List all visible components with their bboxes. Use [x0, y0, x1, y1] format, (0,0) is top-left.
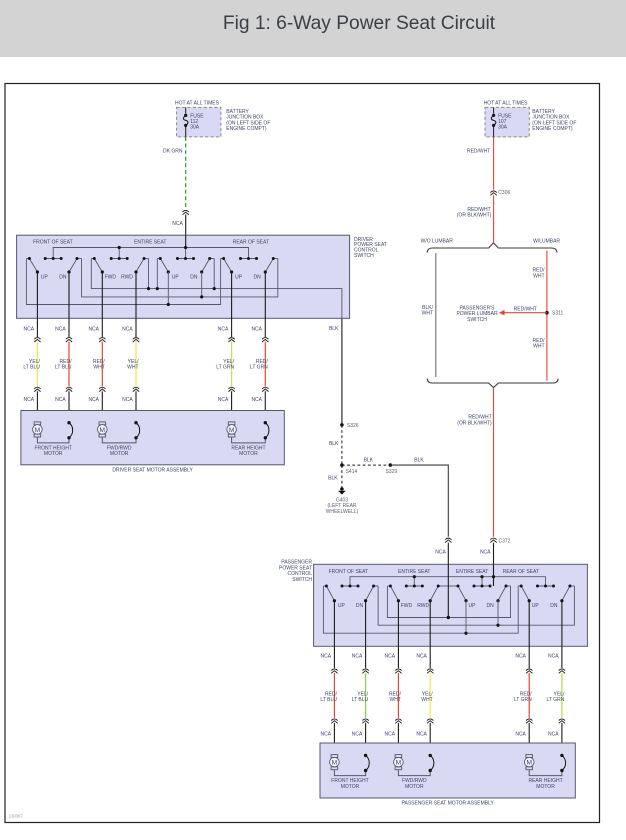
- svg-text:NCA: NCA: [172, 221, 183, 227]
- svg-text:BLK: BLK: [328, 476, 338, 482]
- switch entire seat fwd/rwd (driver): [91, 257, 148, 281]
- wire BLK from driver switch: [329, 318, 342, 425]
- svg-text:RED/WHT: RED/WHT: [467, 149, 490, 155]
- svg-text:S329: S329: [386, 469, 398, 475]
- wire BLK S414 to S329: [342, 458, 390, 466]
- passenger bus B: [378, 586, 574, 625]
- svg-text:(OR BLK/WHT): (OR BLK/WHT): [457, 213, 492, 219]
- switch front of seat up/dn (passenger): [323, 585, 378, 609]
- svg-text:SWITCH: SWITCH: [467, 317, 487, 323]
- svg-text:PASSENGER SEAT MOTOR ASSEMBLY: PASSENGER SEAT MOTOR ASSEMBLY: [402, 801, 495, 807]
- driver switch label: [354, 237, 387, 259]
- svg-text:WHEELWELL): WHEELWELL): [326, 509, 359, 515]
- svg-text:MOTOR: MOTOR: [341, 784, 360, 790]
- svg-text:S414: S414: [346, 469, 358, 475]
- svg-text:WHT: WHT: [533, 344, 544, 350]
- svg-text:C306: C306: [498, 190, 510, 196]
- wire passenger motor 6 (YEL/LT GRN): [547, 601, 566, 756]
- wire driver motor 2 (RED/LT BLU): [55, 272, 72, 423]
- svg-text:DN: DN: [356, 603, 364, 609]
- svg-text:BLK: BLK: [364, 458, 374, 464]
- svg-text:NCA: NCA: [515, 654, 526, 660]
- passenger bus C: [387, 586, 510, 618]
- motor fwd/rwd (driver): [98, 421, 140, 457]
- switch rear of seat up/dn (passenger): [518, 585, 574, 609]
- svg-text:NCA: NCA: [548, 732, 559, 738]
- wire DK GRN from fuse F112: [163, 137, 186, 209]
- svg-text:MOTOR: MOTOR: [405, 784, 424, 790]
- svg-text:NCA: NCA: [352, 654, 363, 660]
- svg-text:NCA: NCA: [416, 654, 427, 660]
- wire RED/WHT (OR BLK/WHT) lumbar to C372: [457, 388, 493, 537]
- svg-text:WHT: WHT: [421, 697, 432, 703]
- splice S414: [340, 463, 357, 475]
- svg-text:NCA: NCA: [385, 654, 396, 660]
- motor fwd/rwd (passenger): [394, 754, 434, 790]
- switch entire seat up/dn (driver): [157, 257, 214, 281]
- switch entire seat fwd/rwd (passenger): [387, 585, 448, 609]
- svg-text:WHT: WHT: [127, 365, 138, 371]
- lumbar switch label: [456, 306, 498, 323]
- svg-text:NCA: NCA: [55, 326, 66, 332]
- wire driver motor 5 (YEL/LT GRN): [216, 272, 235, 422]
- svg-text:WHT: WHT: [93, 365, 104, 371]
- svg-text:NCA: NCA: [251, 397, 262, 403]
- svg-text:ENTIRE SEAT: ENTIRE SEAT: [456, 569, 488, 575]
- splice S326: [340, 423, 359, 429]
- driver seat motor assembly box: [21, 411, 284, 474]
- passenger seat motor assembly box: [320, 743, 575, 807]
- inline connector on BLK wire: [445, 538, 451, 542]
- svg-text:NCA: NCA: [385, 732, 396, 738]
- wire BLK S414 to ground: [328, 465, 342, 487]
- motor front height (passenger): [330, 754, 370, 790]
- svg-text:M: M: [396, 760, 402, 767]
- driver bus B: [82, 259, 278, 297]
- motor rear height (passenger): [524, 754, 565, 790]
- wire driver motor 3 (RED/WHT): [88, 272, 105, 422]
- svg-text:S326: S326: [347, 423, 359, 429]
- passenger power seat control switch: [314, 564, 588, 646]
- svg-text:ENTIRE SEAT: ENTIRE SEAT: [398, 569, 430, 575]
- svg-text:NCA: NCA: [24, 326, 35, 332]
- wire passenger motor 5 (RED/LT GRN): [514, 601, 533, 755]
- svg-text:HOT AT ALL TIMES: HOT AT ALL TIMES: [484, 100, 529, 106]
- svg-text:NCA: NCA: [218, 397, 229, 403]
- driver bus C to BLK out: [91, 259, 342, 319]
- passenger bus A: [323, 586, 518, 633]
- svg-text:ENTIRE SEAT: ENTIRE SEAT: [134, 240, 166, 246]
- wire RED/WHT from fuse F107: [467, 137, 494, 190]
- svg-text:C372: C372: [499, 538, 511, 544]
- svg-text:30A: 30A: [190, 125, 200, 131]
- wire driver motor 4 (YEL/WHT): [122, 272, 139, 423]
- passenger power lumbar switch: [421, 239, 561, 388]
- svg-text:UP: UP: [469, 603, 477, 609]
- connector C372: [490, 538, 510, 544]
- driver bus A (front rail - rear rail): [26, 259, 220, 305]
- svg-text:NCA: NCA: [88, 326, 99, 332]
- svg-text:NCA: NCA: [251, 326, 262, 332]
- svg-text:RWD: RWD: [417, 603, 429, 609]
- wire BLK S329 to passenger switch: [390, 458, 448, 537]
- svg-text:M: M: [35, 427, 41, 434]
- svg-text:ENGINE COMPT): ENGINE COMPT): [226, 126, 267, 132]
- wire passenger motor 3 (RED/WHT): [385, 601, 402, 755]
- svg-text:130367: 130367: [9, 813, 24, 818]
- svg-text:NCA: NCA: [321, 732, 332, 738]
- svg-text:M: M: [332, 760, 338, 767]
- switch front of seat up/dn (driver): [26, 257, 81, 281]
- svg-text:BLK: BLK: [414, 458, 424, 464]
- fuse F112 battery junction box (driver): [175, 100, 270, 137]
- passenger entire-seat pole drops: [464, 601, 499, 635]
- wire NCA into passenger switch ground: [435, 543, 448, 565]
- motor rear height (driver): [227, 421, 269, 457]
- svg-text:MOTOR: MOTOR: [44, 451, 63, 457]
- svg-text:RWD: RWD: [121, 275, 133, 281]
- svg-text:LT BLU: LT BLU: [352, 697, 369, 703]
- svg-text:HOT AT ALL TIMES: HOT AT ALL TIMES: [175, 100, 220, 106]
- svg-text:BLK: BLK: [329, 441, 339, 447]
- svg-text:NCA: NCA: [352, 732, 363, 738]
- svg-text:NCA: NCA: [548, 654, 559, 660]
- svg-text:FWD: FWD: [401, 603, 413, 609]
- driver short rails to bus C: [147, 259, 216, 291]
- diagram id: [9, 813, 24, 818]
- switch rear of seat up/dn (driver): [221, 257, 278, 281]
- wire passenger motor 1 (RED/LT BLU): [320, 601, 337, 755]
- passenger switch power bus: [350, 564, 546, 586]
- svg-text:DK GRN: DK GRN: [163, 149, 183, 155]
- svg-text:UP: UP: [532, 603, 540, 609]
- wire RED/WHT (OR BLK/WHT) to lumbar switch: [457, 195, 494, 242]
- svg-text:LT GRN: LT GRN: [514, 697, 532, 703]
- svg-text:Fig 1: 6-Way Power Seat Circui: Fig 1: 6-Way Power Seat Circuit: [223, 13, 496, 34]
- motor front height (driver): [33, 421, 73, 457]
- svg-text:DN: DN: [59, 275, 67, 281]
- svg-text:UP: UP: [338, 603, 346, 609]
- svg-text:ENGINE COMPT): ENGINE COMPT): [532, 126, 573, 132]
- title bar: [0, 0, 626, 57]
- driver switch power bus: [53, 235, 248, 258]
- svg-text:NCA: NCA: [435, 549, 446, 555]
- connector C306: [490, 190, 510, 196]
- svg-text:UP: UP: [172, 275, 180, 281]
- svg-text:M: M: [229, 427, 235, 434]
- svg-text:WHT: WHT: [422, 311, 433, 317]
- ground G403 (left rear wheelwell): [326, 487, 359, 515]
- svg-text:DN: DN: [550, 603, 558, 609]
- passenger BLK ground entry to bus C: [447, 564, 450, 619]
- svg-text:SWITCH: SWITCH: [292, 577, 312, 583]
- svg-text:FWD: FWD: [105, 275, 117, 281]
- svg-text:30A: 30A: [498, 125, 508, 131]
- svg-text:LT BLU: LT BLU: [320, 697, 337, 703]
- svg-text:LT BLU: LT BLU: [55, 365, 72, 371]
- svg-text:DN: DN: [253, 275, 261, 281]
- svg-text:LT GRN: LT GRN: [250, 365, 268, 371]
- svg-text:DN: DN: [486, 603, 494, 609]
- svg-text:RED/WHT: RED/WHT: [514, 307, 537, 313]
- svg-text:LT GRN: LT GRN: [216, 365, 234, 371]
- svg-text:WHT: WHT: [390, 697, 401, 703]
- svg-text:NCA: NCA: [122, 326, 133, 332]
- passenger switch label: [279, 560, 312, 583]
- wire passenger motor 4 (YEL/WHT): [416, 601, 433, 756]
- svg-text:(OR BLK/WHT): (OR BLK/WHT): [457, 421, 492, 427]
- svg-text:LT BLU: LT BLU: [23, 365, 40, 371]
- svg-text:UP: UP: [235, 275, 243, 281]
- wire BLK S326 to S414: [329, 425, 342, 465]
- svg-text:DRIVER SEAT MOTOR ASSEMBLY: DRIVER SEAT MOTOR ASSEMBLY: [112, 467, 193, 473]
- svg-text:DN: DN: [190, 275, 198, 281]
- driver entire-seat pole drops: [167, 272, 204, 306]
- wire driver motor 1 (YEL/LT BLU): [23, 272, 40, 422]
- svg-text:MOTOR: MOTOR: [110, 451, 129, 457]
- svg-text:LT GRN: LT GRN: [547, 697, 565, 703]
- wire NCA into driver switch: [172, 215, 185, 236]
- svg-text:S311: S311: [552, 310, 564, 316]
- svg-text:REAR OF SEAT: REAR OF SEAT: [503, 569, 539, 575]
- svg-text:BLK: BLK: [329, 326, 339, 332]
- svg-text:FRONT OF SEAT: FRONT OF SEAT: [33, 240, 73, 246]
- svg-text:UP: UP: [41, 275, 49, 281]
- svg-text:MOTOR: MOTOR: [239, 451, 258, 457]
- svg-text:SWITCH: SWITCH: [354, 253, 374, 259]
- svg-text:NCA: NCA: [24, 397, 35, 403]
- svg-text:M: M: [100, 427, 106, 434]
- wire passenger motor 2 (YEL/LT BLU): [352, 601, 369, 756]
- svg-text:FRONT OF SEAT: FRONT OF SEAT: [329, 569, 369, 575]
- splice S311 with arrow: [499, 307, 564, 317]
- wire BLK/WHT (w/o lumbar): [422, 253, 436, 377]
- svg-text:W/LUMBAR: W/LUMBAR: [533, 239, 560, 245]
- svg-text:NCA: NCA: [55, 397, 66, 403]
- svg-text:MOTOR: MOTOR: [536, 784, 555, 790]
- wire driver motor 6 (RED/LT GRN): [250, 272, 269, 423]
- svg-text:NCA: NCA: [416, 732, 427, 738]
- svg-text:NCA: NCA: [122, 397, 133, 403]
- svg-text:WHT: WHT: [533, 273, 544, 279]
- switch entire seat up/dn (passenger): [448, 585, 510, 609]
- svg-text:NCA: NCA: [218, 326, 229, 332]
- fuse F107 battery junction box (passenger): [484, 100, 577, 137]
- svg-text:W/O LUMBAR: W/O LUMBAR: [421, 239, 454, 245]
- svg-text:NCA: NCA: [88, 397, 99, 403]
- svg-text:M: M: [526, 760, 532, 767]
- wire NCA into passenger switch feed: [480, 543, 494, 565]
- wire RED/WHT (w/lumbar): [533, 251, 547, 381]
- svg-text:NCA: NCA: [321, 654, 332, 660]
- svg-text:NCA: NCA: [515, 732, 526, 738]
- svg-text:NCA: NCA: [480, 549, 491, 555]
- splice S329: [386, 463, 398, 475]
- svg-text:REAR OF SEAT: REAR OF SEAT: [233, 240, 269, 246]
- driver power seat control switch: [17, 235, 350, 318]
- inline connector on driver feed: [183, 210, 189, 214]
